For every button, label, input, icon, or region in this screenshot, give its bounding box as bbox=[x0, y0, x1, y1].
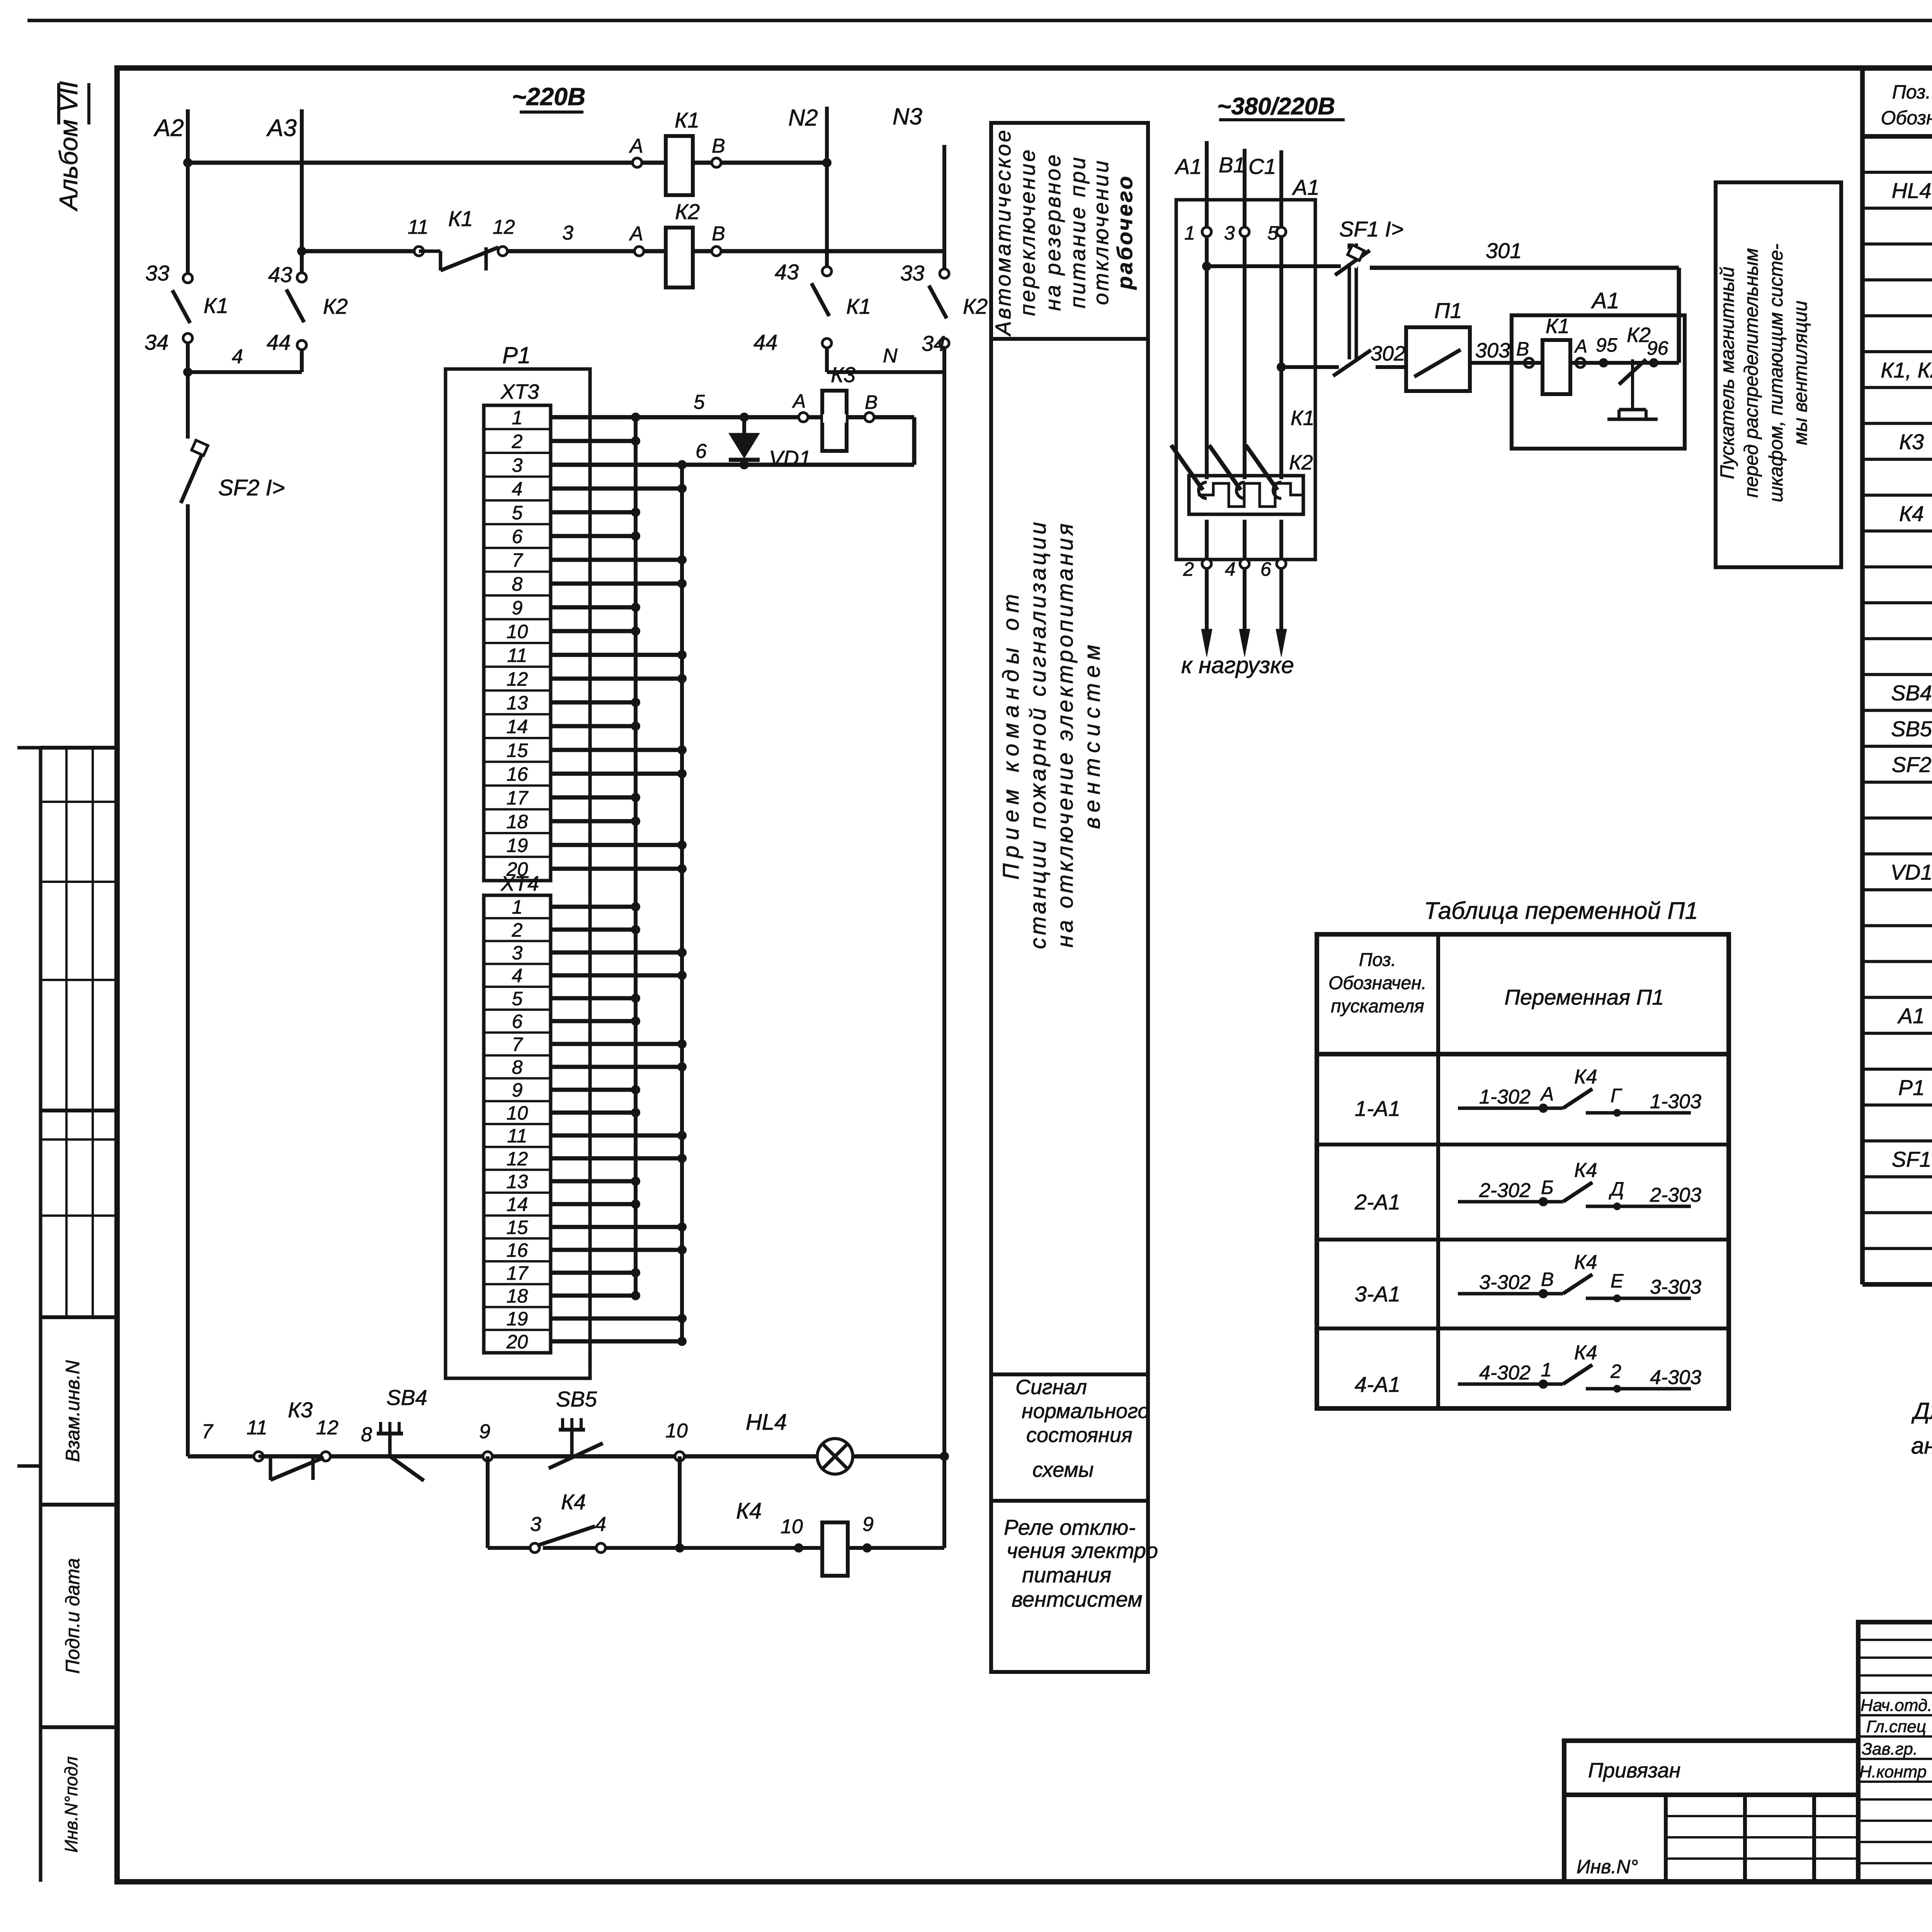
svg-text:11: 11 bbox=[507, 645, 527, 666]
svg-text:34: 34 bbox=[145, 330, 168, 354]
svg-text:4: 4 bbox=[232, 345, 243, 368]
svg-text:3: 3 bbox=[562, 222, 573, 244]
svg-text:Г: Г bbox=[1611, 1085, 1622, 1106]
svg-text:11: 11 bbox=[507, 1125, 527, 1147]
svg-text:Таблица переменной П1: Таблица переменной П1 bbox=[1424, 898, 1698, 924]
svg-text:1: 1 bbox=[512, 896, 523, 918]
svg-text:Сигнал: Сигнал bbox=[1015, 1376, 1087, 1399]
svg-text:43: 43 bbox=[775, 260, 799, 284]
svg-text:18: 18 bbox=[507, 811, 528, 832]
svg-text:17: 17 bbox=[507, 787, 529, 809]
svg-text:А1: А1 bbox=[1897, 1003, 1925, 1028]
svg-text:В1: В1 bbox=[1219, 153, 1245, 177]
svg-text:П1: П1 bbox=[1434, 298, 1462, 323]
svg-text:9: 9 bbox=[512, 1079, 523, 1101]
svg-text:К4: К4 bbox=[1574, 1066, 1597, 1088]
svg-text:переключение: переключение bbox=[1015, 148, 1039, 316]
svg-text:А: А bbox=[629, 135, 643, 157]
svg-text:7: 7 bbox=[512, 1034, 524, 1055]
svg-text:питание при: питание при bbox=[1065, 155, 1090, 308]
svg-text:12: 12 bbox=[507, 668, 528, 690]
svg-text:44: 44 bbox=[267, 330, 291, 354]
svg-text:К1: К1 bbox=[1291, 406, 1315, 430]
svg-text:~220В: ~220В bbox=[512, 83, 585, 111]
svg-text:рабочего: рабочего bbox=[1112, 174, 1137, 290]
svg-text:2: 2 bbox=[512, 919, 523, 941]
svg-text:А: А bbox=[792, 390, 806, 412]
svg-text:6: 6 bbox=[512, 1011, 523, 1032]
svg-text:состояния: состояния bbox=[1026, 1423, 1133, 1447]
svg-text:SB4: SB4 bbox=[1891, 681, 1932, 705]
svg-text:С1: С1 bbox=[1248, 154, 1276, 179]
svg-text:SB5: SB5 bbox=[556, 1387, 597, 1411]
svg-text:11: 11 bbox=[247, 1417, 267, 1439]
svg-text:13: 13 bbox=[507, 692, 528, 714]
svg-text:Нач.отд.: Нач.отд. bbox=[1861, 1696, 1932, 1715]
svg-text:4: 4 bbox=[512, 965, 523, 986]
svg-text:Обозначен.: Обозначен. bbox=[1328, 973, 1427, 993]
svg-text:К1: К1 bbox=[846, 294, 871, 318]
svg-text:301: 301 bbox=[1486, 238, 1522, 263]
svg-text:1: 1 bbox=[1541, 1359, 1552, 1381]
svg-text:16: 16 bbox=[507, 763, 528, 785]
svg-text:3: 3 bbox=[512, 942, 523, 964]
svg-text:К1, К2: К1, К2 bbox=[1881, 358, 1932, 382]
svg-text:15: 15 bbox=[507, 740, 528, 761]
svg-text:отключении: отключении bbox=[1088, 159, 1113, 305]
svg-text:на резервное: на резервное bbox=[1041, 153, 1065, 311]
svg-text:SF2: SF2 bbox=[1892, 752, 1932, 777]
svg-text:А: А bbox=[629, 223, 643, 245]
svg-text:схемы: схемы bbox=[1032, 1458, 1094, 1481]
svg-text:43: 43 bbox=[268, 262, 292, 287]
svg-text:Инв.N°: Инв.N° bbox=[1577, 1856, 1638, 1878]
svg-text:6: 6 bbox=[512, 526, 523, 547]
svg-text:N: N bbox=[883, 345, 898, 367]
svg-text:3: 3 bbox=[1224, 222, 1235, 244]
svg-text:HL4: HL4 bbox=[1892, 179, 1932, 203]
svg-text:1-А1: 1-А1 bbox=[1355, 1096, 1400, 1121]
svg-text:К4: К4 bbox=[561, 1490, 586, 1514]
svg-text:3-А1: 3-А1 bbox=[1355, 1282, 1400, 1306]
svg-text:3-302: 3-302 bbox=[1479, 1271, 1531, 1294]
svg-text:вентсистем: вентсистем bbox=[1012, 1587, 1143, 1611]
svg-text:6: 6 bbox=[696, 440, 707, 463]
svg-text:А2: А2 bbox=[153, 115, 184, 141]
svg-text:20: 20 bbox=[506, 1331, 528, 1352]
svg-text:17: 17 bbox=[507, 1262, 529, 1284]
svg-text:12: 12 bbox=[507, 1148, 528, 1170]
svg-text:15: 15 bbox=[507, 1216, 528, 1238]
svg-text:К2: К2 bbox=[1289, 451, 1313, 474]
svg-text:10: 10 bbox=[507, 1102, 528, 1124]
svg-text:13: 13 bbox=[507, 1171, 528, 1192]
svg-text:Переменная П1: Переменная П1 bbox=[1505, 985, 1664, 1009]
svg-text:6: 6 bbox=[1260, 558, 1271, 580]
svg-text:К4: К4 bbox=[1899, 501, 1924, 526]
svg-text:HL4: HL4 bbox=[746, 1410, 787, 1435]
svg-text:Поз.: Поз. bbox=[1892, 81, 1931, 103]
svg-text:чения электро: чения электро bbox=[1007, 1538, 1158, 1563]
svg-text:33: 33 bbox=[145, 261, 169, 285]
svg-text:1: 1 bbox=[512, 407, 523, 429]
svg-text:К1: К1 bbox=[448, 206, 473, 231]
svg-text:8: 8 bbox=[512, 1056, 523, 1078]
svg-text:Д: Д bbox=[1609, 1178, 1624, 1200]
svg-text:SF1: SF1 bbox=[1892, 1147, 1932, 1171]
svg-text:Для остальных пускателей 2-: Для остальных пускателей 2-А1, 3-А1, 4-А… bbox=[1911, 1398, 1932, 1424]
svg-text:перед распределительным: перед распределительным bbox=[1740, 248, 1762, 498]
svg-text:А3: А3 bbox=[266, 115, 297, 141]
svg-text:2-302: 2-302 bbox=[1479, 1179, 1531, 1202]
svg-text:Поз.: Поз. bbox=[1359, 950, 1396, 970]
svg-text:Инв.N°подл: Инв.N°подл bbox=[61, 1757, 81, 1853]
svg-text:SB4: SB4 bbox=[386, 1385, 427, 1410]
svg-text:19: 19 bbox=[507, 1308, 528, 1330]
svg-text:8: 8 bbox=[361, 1423, 372, 1446]
svg-text:Автоматическое: Автоматическое bbox=[991, 128, 1015, 337]
svg-text:4-А1: 4-А1 bbox=[1355, 1372, 1400, 1396]
svg-text:9: 9 bbox=[512, 597, 523, 619]
svg-text:4: 4 bbox=[1225, 558, 1236, 580]
svg-text:К2: К2 bbox=[963, 294, 988, 318]
svg-text:303: 303 bbox=[1475, 339, 1510, 362]
svg-text:302: 302 bbox=[1371, 342, 1405, 365]
svg-text:3-303: 3-303 bbox=[1650, 1276, 1701, 1298]
svg-text:3: 3 bbox=[530, 1513, 541, 1536]
svg-text:Б: Б bbox=[1541, 1177, 1554, 1198]
svg-text:Гл.спец: Гл.спец bbox=[1866, 1717, 1926, 1736]
svg-text:14: 14 bbox=[507, 1194, 528, 1215]
svg-text:К4: К4 bbox=[1574, 1251, 1597, 1274]
svg-text:5: 5 bbox=[512, 502, 523, 524]
svg-text:К1: К1 bbox=[1546, 315, 1570, 338]
svg-text:В: В bbox=[865, 391, 878, 413]
svg-text:N2: N2 bbox=[788, 105, 818, 131]
svg-text:2: 2 bbox=[1183, 558, 1194, 580]
svg-text:VD1: VD1 bbox=[1891, 860, 1932, 884]
svg-text:16: 16 bbox=[507, 1240, 528, 1261]
svg-text:К2: К2 bbox=[323, 294, 348, 318]
svg-text:12: 12 bbox=[316, 1417, 338, 1439]
svg-text:К4: К4 bbox=[1574, 1342, 1597, 1364]
svg-text:SF1 I>: SF1 I> bbox=[1339, 217, 1404, 241]
svg-text:5: 5 bbox=[512, 988, 523, 1009]
svg-text:Н.контр: Н.контр bbox=[1859, 1762, 1927, 1781]
svg-text:8: 8 bbox=[512, 573, 523, 595]
svg-text:аналогична. Количество ука: аналогична. Количество указано на один п… bbox=[1911, 1433, 1932, 1459]
svg-text:Прием команды от: Прием команды от bbox=[998, 588, 1024, 879]
svg-text:1: 1 bbox=[1184, 222, 1195, 244]
svg-text:19: 19 bbox=[507, 835, 528, 856]
svg-text:4-303: 4-303 bbox=[1650, 1366, 1701, 1389]
svg-text:4: 4 bbox=[595, 1513, 606, 1536]
svg-text:Р1: Р1 bbox=[502, 342, 531, 368]
svg-text:мы вентиляции: мы вентиляции bbox=[1789, 301, 1811, 445]
svg-text:14: 14 bbox=[507, 716, 528, 737]
svg-text:питания: питания bbox=[1022, 1563, 1111, 1587]
svg-text:Пускатель магнитный: Пускатель магнитный bbox=[1716, 267, 1738, 479]
svg-text:В: В bbox=[1541, 1269, 1554, 1290]
svg-text:Обозн.: Обозн. bbox=[1881, 107, 1932, 129]
svg-text:К4: К4 bbox=[1574, 1159, 1597, 1182]
svg-text:10: 10 bbox=[507, 621, 528, 642]
svg-text:10: 10 bbox=[665, 1420, 688, 1442]
svg-text:Реле отклю-: Реле отклю- bbox=[1004, 1515, 1136, 1539]
svg-text:ХТ4: ХТ4 bbox=[500, 872, 539, 895]
svg-text:А1: А1 bbox=[1292, 175, 1320, 199]
svg-text:К4: К4 bbox=[736, 1498, 762, 1524]
svg-text:12: 12 bbox=[493, 216, 515, 238]
svg-text:вентсистем: вентсистем bbox=[1080, 639, 1105, 829]
svg-text:К2: К2 bbox=[675, 199, 700, 224]
svg-text:Взам.инв.N: Взам.инв.N bbox=[62, 1360, 83, 1462]
svg-text:4: 4 bbox=[512, 478, 523, 500]
svg-text:А: А bbox=[1540, 1083, 1554, 1105]
svg-text:станции пожарной сигнализаци: станции пожарной сигнализации bbox=[1026, 519, 1051, 949]
svg-text:на отключение электропитания: на отключение электропитания bbox=[1053, 521, 1078, 947]
svg-text:нормального: нормального bbox=[1022, 1400, 1149, 1423]
svg-text:2: 2 bbox=[512, 430, 523, 452]
svg-text:пускателя: пускателя bbox=[1331, 996, 1424, 1017]
svg-text:шкафом, питающим систе-: шкафом, питающим систе- bbox=[1765, 243, 1787, 502]
svg-text:7: 7 bbox=[202, 1420, 214, 1443]
svg-text:SF2 I>: SF2 I> bbox=[218, 475, 285, 500]
svg-text:7: 7 bbox=[512, 549, 524, 571]
svg-text:Р1: Р1 bbox=[1898, 1075, 1925, 1100]
svg-text:А: А bbox=[1574, 336, 1587, 357]
svg-text:Зав.гр.: Зав.гр. bbox=[1862, 1740, 1918, 1759]
svg-text:1-303: 1-303 bbox=[1650, 1090, 1701, 1113]
svg-text:2: 2 bbox=[1610, 1361, 1621, 1382]
svg-text:~380/220В: ~380/220В bbox=[1217, 93, 1335, 120]
svg-text:Е: Е bbox=[1611, 1270, 1624, 1292]
svg-text:2-А1: 2-А1 bbox=[1354, 1190, 1400, 1214]
svg-text:34: 34 bbox=[922, 331, 946, 355]
svg-text:1-302: 1-302 bbox=[1479, 1086, 1531, 1108]
svg-text:33: 33 bbox=[900, 261, 924, 285]
svg-text:4-302: 4-302 bbox=[1479, 1362, 1531, 1384]
svg-text:VD1: VD1 bbox=[769, 446, 811, 470]
svg-text:К1: К1 bbox=[204, 293, 228, 318]
svg-text:44: 44 bbox=[753, 330, 777, 354]
svg-text:к нагрузке: к нагрузке bbox=[1181, 652, 1294, 678]
svg-text:9: 9 bbox=[862, 1513, 874, 1536]
svg-text:3: 3 bbox=[512, 454, 523, 476]
svg-text:SB5: SB5 bbox=[1891, 716, 1932, 741]
svg-text:К2: К2 bbox=[1627, 323, 1651, 347]
svg-text:Подп.и дата: Подп.и дата bbox=[62, 1558, 83, 1673]
svg-text:N3: N3 bbox=[893, 104, 922, 129]
svg-text:ХТ3: ХТ3 bbox=[500, 380, 539, 403]
svg-text:А1: А1 bbox=[1174, 154, 1202, 179]
svg-text:К3: К3 bbox=[288, 1398, 313, 1422]
svg-text:9: 9 bbox=[479, 1420, 490, 1443]
svg-text:18: 18 bbox=[507, 1285, 528, 1307]
svg-text:11: 11 bbox=[408, 216, 429, 238]
svg-text:2-303: 2-303 bbox=[1650, 1184, 1701, 1206]
svg-text:К1: К1 bbox=[675, 108, 699, 132]
svg-text:А1: А1 bbox=[1591, 288, 1619, 313]
svg-text:10: 10 bbox=[781, 1515, 803, 1538]
svg-text:В: В bbox=[712, 135, 725, 157]
svg-text:5: 5 bbox=[694, 391, 705, 413]
svg-text:Привязан: Привязан bbox=[1588, 1759, 1680, 1782]
svg-text:В: В bbox=[1516, 338, 1529, 360]
svg-text:В: В bbox=[712, 223, 725, 245]
svg-text:К3: К3 bbox=[831, 362, 855, 387]
svg-text:К3: К3 bbox=[1899, 430, 1924, 454]
svg-text:95: 95 bbox=[1596, 334, 1617, 356]
